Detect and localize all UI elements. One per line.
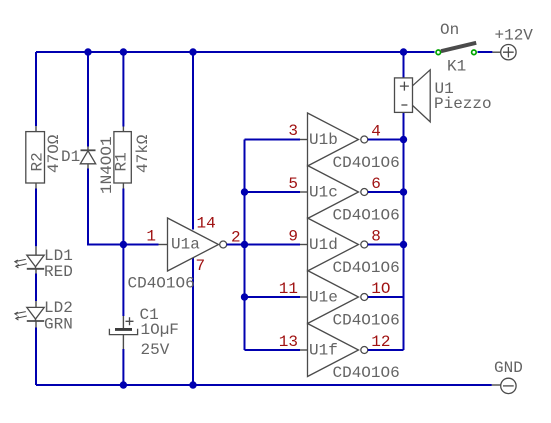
wire U1d output [368,244,404,246]
wire R1 bottom through U1a input junction down to C1 [122,189,124,317]
wire right output bus [403,112,405,350]
svg-text:6: 6 [371,175,381,193]
LED LD2 [15,299,73,334]
node junction bottom rail at C1 column [120,381,127,388]
svg-text:1OµF: 1OµF [141,321,179,339]
diode D1 1N4001 [61,136,116,194]
svg-text:GND: GND [494,359,523,377]
wire U1f input [245,349,301,351]
svg-text:1O: 1O [371,280,390,298]
svg-text:K1: K1 [447,58,466,76]
resistor R2 [26,126,63,189]
svg-text:11: 11 [279,280,298,298]
wire D1 bottom to U1a input row [88,169,123,245]
inverter U1d CD40106 [300,218,400,277]
wire top rail [36,51,435,53]
wire U1a output to U1d input [227,244,300,246]
wire U1a pin14 supply [192,52,194,230]
ground terminal GND [492,359,523,394]
svg-text:47kΩ: 47kΩ [134,134,152,173]
inverter U1c CD40106 [300,166,400,225]
node junction bottom rail at pin7 column [189,381,196,388]
svg-text:On: On [440,21,459,39]
svg-text:CD4O1O6: CD4O1O6 [333,312,400,330]
svg-text:3: 3 [288,122,298,140]
svg-text:U1b: U1b [309,131,338,149]
wire U1c output [368,191,404,193]
node junction top rail at pin14 column [189,48,196,55]
svg-text:U1f: U1f [309,342,338,360]
inverter U1f CD40106 [300,324,400,383]
wire U1c input [245,191,301,193]
svg-text:GRN: GRN [44,316,73,334]
node junction U1a input [120,241,127,248]
inverter U1b CD40106 [300,113,400,172]
node junction right bus U1b row [400,136,407,143]
wire left vertical R2 column top [35,52,37,126]
svg-text:D1: D1 [61,148,80,166]
wire U1a input [123,244,158,246]
wire U1f output [368,349,404,351]
node junction right bus U1d row [400,241,407,248]
node junction top rail at R1 column [120,48,127,55]
wire D1 column top [87,52,89,147]
inverter U1e CD40106 [300,271,400,330]
node junction left bus U1e row [241,293,248,300]
svg-text:R2: R2 [29,152,47,171]
wire U1a pin7 ground [192,258,194,385]
svg-text:CD4O1O6: CD4O1O6 [333,154,400,172]
node junction right bus U1c row [400,188,407,195]
wire U1b input [245,139,301,141]
svg-text:14: 14 [197,215,216,233]
node junction top rail at D1 column [84,48,91,55]
node junction left bus U1c row [241,188,248,195]
wire R1 column top [122,52,124,127]
svg-text:5: 5 [288,175,298,193]
node junction left bus U1d row [241,241,248,248]
resistor R1 [113,127,152,189]
speaker U1 Piezzo [395,70,492,122]
wire U1e input [245,296,301,298]
svg-text:1: 1 [146,228,156,246]
wire LD1 to LD2 [35,274,37,302]
svg-text:+12V: +12V [495,27,534,45]
svg-text:12: 12 [371,333,390,351]
wire piezo top [403,52,405,78]
svg-text:13: 13 [279,333,298,351]
wire U1e output [368,296,404,298]
svg-text:8: 8 [371,228,381,246]
wire C1 to bottom rail [122,349,124,385]
svg-text:U1a: U1a [171,236,200,254]
wire U1b output [368,139,404,141]
wire LD2 to bottom rail [35,328,37,386]
capacitor C1 [109,306,179,359]
svg-text:RED: RED [44,263,73,281]
wire top rail right of switch [478,51,493,53]
wire R2 to LD1 [35,189,37,247]
switch K1 [436,21,476,76]
op-amp U1a inverter CD40106 [128,218,227,293]
wire bottom rail [36,384,492,386]
svg-text:25V: 25V [141,341,170,359]
svg-text:U1d: U1d [309,236,338,254]
svg-text:4: 4 [371,123,381,141]
svg-text:CD4O1O6: CD4O1O6 [333,364,400,382]
svg-text:LD2: LD2 [44,299,73,317]
wire left input bus [244,140,246,351]
svg-text:CD4O1O6: CD4O1O6 [128,275,195,293]
LED LD1 [15,246,73,281]
node junction top rail at piezo column [400,48,407,55]
svg-text:7: 7 [196,257,206,275]
svg-text:CD4O1O6: CD4O1O6 [333,259,400,277]
svg-text:Piezzo: Piezzo [434,95,492,113]
svg-text:9: 9 [288,228,298,246]
power terminal +12V [492,27,533,60]
svg-text:CD4O1O6: CD4O1O6 [333,207,400,225]
svg-text:R1: R1 [113,152,131,171]
svg-text:U1c: U1c [309,184,338,202]
svg-text:U1e: U1e [309,289,338,307]
